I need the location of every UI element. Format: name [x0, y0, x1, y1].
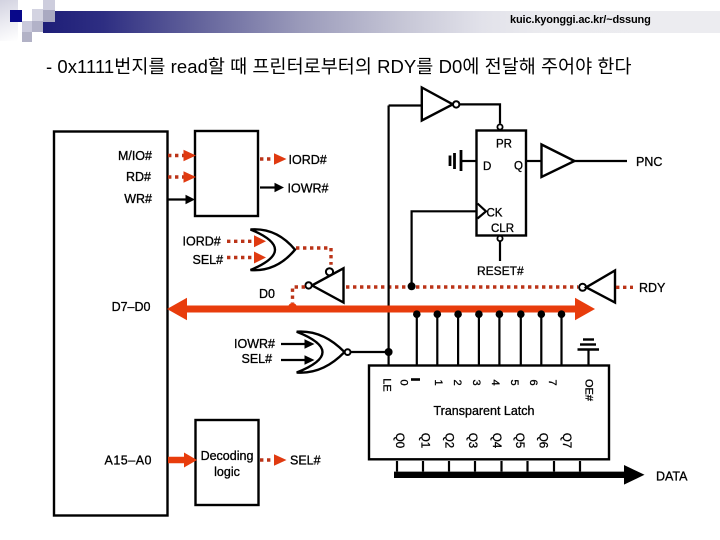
inverter U3 RDY: [579, 271, 615, 303]
ground at OE#: [578, 340, 600, 366]
svg-text:IOWR#: IOWR#: [288, 182, 329, 196]
wire CLR to RESET#: [499, 241, 501, 261]
svg-text:Q: Q: [514, 161, 523, 173]
latch output stub q7: [579, 461, 581, 472]
svg-text:Q2: Q2: [443, 433, 455, 448]
svg-text:Q1: Q1: [419, 433, 431, 448]
slide title: [46, 53, 720, 79]
io decode box: [195, 131, 258, 216]
header navy gradient bar: [43, 11, 720, 33]
data line d4: [496, 310, 504, 365]
svg-text:SEL#: SEL#: [193, 253, 224, 267]
node CK-RDY junction: [408, 282, 416, 290]
svg-text:RDY: RDY: [639, 281, 666, 295]
data line d7: [558, 310, 566, 365]
header deco column light: [43, 0, 55, 10]
wire nor2 input2 black arrow: [281, 355, 315, 364]
header deco square medium3: [22, 32, 32, 42]
svg-text:D7–D0: D7–D0: [112, 300, 151, 314]
data line d6: [538, 310, 546, 365]
header deco square light2: [32, 9, 43, 21]
svg-text:IORD#: IORD#: [183, 235, 221, 249]
ground tie at D input: [450, 150, 477, 171]
header deco square medium1: [32, 21, 43, 32]
svg-text:SEL#: SEL#: [242, 352, 273, 366]
svg-text:1: 1: [432, 379, 444, 385]
buffer U6: [542, 145, 575, 178]
svg-text:3: 3: [470, 379, 482, 385]
wire PNC: [575, 160, 628, 162]
tri-state buffer enable bubble: [326, 268, 333, 275]
wire inverter output to PR: [460, 104, 501, 123]
wire nor2 output: [351, 351, 389, 353]
wire A15-A0 red arrow: [168, 453, 197, 468]
header deco square navy: [10, 10, 22, 22]
svg-text:RD#: RD#: [126, 170, 151, 184]
latch output stub q4: [500, 461, 502, 472]
header left gradient strip: [0, 0, 18, 41]
svg-text:PNC: PNC: [636, 155, 662, 169]
svg-text:Q7: Q7: [560, 433, 572, 448]
svg-text:Q3: Q3: [466, 433, 478, 448]
svg-text:IORD#: IORD#: [289, 153, 327, 167]
svg-text:6: 6: [527, 379, 539, 385]
latch output stub q5: [526, 461, 528, 472]
wire nor2 input1 black arrow: [281, 339, 315, 348]
wire RDY dotted line: [346, 285, 578, 288]
label pin 1a: [411, 378, 420, 381]
data line d2: [454, 310, 462, 365]
wire or1 output dotted: [296, 248, 331, 265]
svg-text:4: 4: [489, 379, 501, 385]
svg-text:M/IO#: M/IO#: [118, 149, 152, 163]
CLR bubble: [497, 236, 502, 241]
label Decoding logic: [201, 449, 254, 479]
tri-state buffer U2: [312, 268, 344, 302]
svg-text:5: 5: [508, 379, 520, 385]
wire or1 input2 dotted red arrow: [227, 252, 266, 264]
nor-gate NOR2: [297, 332, 351, 373]
svg-text:2: 2: [451, 379, 463, 385]
svg-text:Q6: Q6: [537, 433, 549, 448]
wire LE vertical net: [388, 106, 390, 366]
svg-text:OE#: OE#: [583, 379, 595, 402]
svg-text:Q0: Q0: [393, 433, 405, 448]
wire IOWR# output black arrow: [260, 183, 284, 192]
header deco square light1: [22, 21, 32, 32]
wire tri-state output dotted to bus: [293, 287, 306, 303]
wire CK net: [412, 211, 477, 283]
or-gate OR1: [251, 229, 296, 270]
inverter U4 top: [422, 88, 460, 121]
wire SEL# output dotted red arrow: [260, 454, 287, 466]
d-flip-flop U5: [477, 131, 527, 236]
data line d1: [434, 310, 442, 365]
decoding logic box: [196, 420, 259, 505]
latch output stub q6: [553, 461, 555, 472]
svg-text:D: D: [483, 161, 491, 173]
svg-text:Transparent Latch: Transparent Latch: [434, 404, 535, 418]
data line d0: [413, 310, 421, 365]
wire inverter input: [389, 104, 422, 106]
CK wedge: [478, 204, 487, 219]
svg-text:Q5: Q5: [513, 433, 525, 448]
svg-text:D0: D0: [259, 287, 275, 301]
wire IORD# output dotted red arrow: [260, 153, 287, 165]
svg-text:A15–A0: A15–A0: [105, 454, 152, 468]
latch U7 transparent latch: [369, 366, 609, 460]
svg-text:SEL#: SEL#: [290, 454, 321, 468]
svg-text:WR#: WR#: [124, 192, 152, 206]
latch output stub q0: [396, 461, 398, 472]
latch output stub q2: [448, 461, 450, 472]
latch output stub q1: [422, 461, 424, 472]
DATA bus black arrow: [394, 465, 645, 485]
svg-text:7: 7: [546, 379, 558, 385]
wire WR# black arrow: [168, 195, 195, 204]
svg-text:Q4: Q4: [490, 433, 502, 449]
wire M/IO# dotted red arrow: [168, 150, 196, 162]
header deco square medium2: [43, 10, 55, 22]
cpu bus box: [54, 132, 168, 516]
latch output stub q3: [474, 461, 476, 472]
wire or1 input1 dotted red arrow: [227, 235, 266, 247]
svg-text:CLR: CLR: [491, 223, 514, 235]
red data bus D7-D0: [167, 298, 595, 321]
svg-text:DATA: DATA: [656, 470, 688, 484]
svg-text:CK: CK: [487, 208, 503, 220]
node D0 bus junction red: [288, 303, 297, 312]
wire RD# dotted red arrow: [168, 171, 196, 183]
svg-text:logic: logic: [214, 465, 240, 479]
tri-state output bubble: [305, 282, 311, 288]
PR bubble: [497, 124, 502, 129]
wire RDY right dotted: [616, 286, 633, 289]
svg-text:LE: LE: [381, 378, 393, 391]
svg-text:RESET#: RESET#: [477, 264, 524, 278]
header url text: [510, 14, 655, 26]
data line d3: [475, 310, 483, 365]
data line d5: [517, 310, 525, 365]
svg-text:PR: PR: [496, 139, 512, 151]
wire Q output: [526, 160, 542, 162]
svg-text:0: 0: [398, 379, 410, 385]
svg-text:Decoding: Decoding: [201, 449, 254, 463]
svg-text:IOWR#: IOWR#: [234, 337, 275, 351]
node LE junction: [385, 348, 393, 356]
